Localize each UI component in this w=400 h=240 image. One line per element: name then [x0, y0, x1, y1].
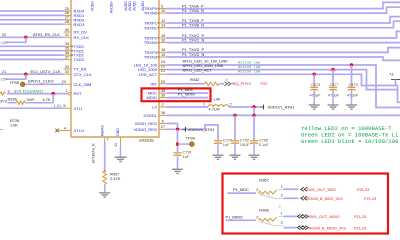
svg-text:XTLO: XTLO: [74, 128, 84, 133]
svg-text:2.37K: 2.37K: [110, 176, 121, 181]
wire RXD0: [0, 6, 85, 14]
svg-text:RXD3: RXD3: [74, 22, 85, 27]
svg-text:EP1BIAS_R: EP1BIAS_R: [92, 143, 96, 163]
svg-text:P1_TXVD_N: P1_TXVD_N: [182, 52, 204, 57]
svg-text:3: 3: [281, 220, 283, 225]
ground below R427: [99, 193, 110, 197]
svg-text:Green LED1 blink = 10/100/100: Green LED1 blink = 10/100/100: [301, 138, 399, 145]
svg-text:P1_TXVB_N: P1_TXVB_N: [182, 23, 204, 28]
wire branch to C6F: [1, 37, 26, 45]
wire C473 drop: [313, 74, 315, 86]
svg-text:39: 39: [161, 93, 165, 98]
svg-text:3: 3: [281, 193, 283, 198]
svg-text:27: 27: [161, 124, 165, 129]
junction on RST: [52, 92, 55, 95]
capacitor C791 1uF: [174, 150, 192, 169]
svg-text:XTLI: XTLI: [74, 106, 82, 111]
pin 8 VDDH_REG: [135, 119, 178, 130]
pin 13 TRXN1 / wire net P1_TXVB_N: [144, 21, 400, 30]
svg-text:41: 41: [114, 143, 118, 147]
wire net ATH1_RX_CLK: [0, 32, 89, 40]
red highlight box MDC/MDIO: [142, 88, 211, 101]
capacitor C750 0.1uF: [250, 138, 269, 155]
svg-text:TRXN2: TRXN2: [144, 40, 158, 45]
svg-text:1: 1: [66, 88, 68, 93]
svg-text:R368: R368: [259, 207, 268, 212]
svg-text:RX_CLK: RX_CLK: [74, 35, 90, 40]
wire stub left edge crystal: [0, 129, 3, 131]
svg-text:13: 13: [161, 23, 165, 28]
svg-text:R395: R395: [8, 96, 17, 101]
wire net RGMII_B_MDC_3V3: [281, 193, 377, 201]
junction rail to C752: [233, 114, 236, 117]
resistor R726 value note: [10, 118, 19, 127]
svg-text:C6F: C6F: [1, 41, 9, 45]
svg-text:3V3 TOLERANT: 3V3 TOLERANT: [14, 89, 44, 94]
svg-text:1: 1: [203, 101, 205, 106]
svg-text:SW1_OUT_MDC: SW1_OUT_MDC: [307, 187, 337, 192]
wire net SW1_OUT_MDIO: [278, 211, 366, 219]
svg-text:36: 36: [161, 110, 165, 115]
svg-text:RGMII_B_MDC_3V3: RGMII_B_MDC_3V3: [307, 196, 343, 201]
svg-text:5: 5: [63, 103, 65, 108]
pin 27 VDDIO_REG / wire net VDD1V8_ATH1: [133, 124, 218, 140]
svg-text:1.0K: 1.0K: [10, 122, 18, 127]
junction to TP90: [176, 142, 179, 145]
wire RBIAS down / net EPBIAS vertical label: [92, 142, 105, 170]
svg-text:470pF: 470pF: [310, 92, 322, 97]
resistor R368: [259, 207, 278, 225]
pin 12 TRXP1 / wire net P1_TXVB_P: [144, 17, 400, 26]
pin 22 LED_1000 / wire net ATH1_LED_1000_LINK: [138, 63, 397, 90]
svg-text:1uF: 1uF: [183, 154, 190, 159]
svg-text:AVDD: AVDD: [132, 1, 136, 11]
svg-text:37: 37: [65, 54, 69, 59]
pin 9 TRXP0 / wire net P1_TXVA_P: [144, 2, 400, 11]
wire net RST 3V3 TOLERANT: [7, 88, 82, 96]
svg-text:INT: INT: [151, 81, 158, 86]
svg-text:DNP: DNP: [27, 97, 36, 102]
wire branch lower left: [1, 74, 26, 82]
svg-text:RGMII_B_MDIO_3V3: RGMII_B_MDIO_3V3: [309, 225, 346, 230]
svg-text:30: 30: [65, 27, 70, 32]
svg-text:23: 23: [62, 79, 66, 84]
junction on GTX_CLK: [24, 73, 27, 76]
svg-text:P1_MDIO: P1_MDIO: [178, 92, 195, 97]
svg-text:3V3: 3V3: [0, 98, 7, 103]
wire RXD2: [0, 15, 85, 23]
svg-text:P1_MDC: P1_MDC: [233, 187, 249, 192]
red highlight box MDC/MDIO straps: [223, 174, 389, 234]
svg-text:GND: GND: [116, 128, 120, 136]
pin 4 XTLO with no-connect X: [55, 125, 84, 133]
svg-text:P22: P22: [261, 81, 268, 86]
svg-text:VDDH_REG: VDDH_REG: [135, 121, 157, 126]
svg-text:VDDIO_REG: VDDIO_REG: [133, 127, 157, 132]
junction at L40 output: [252, 105, 255, 108]
svg-text:7: 7: [107, 138, 109, 142]
svg-text:1.2V: 1.2V: [54, 103, 62, 108]
svg-text:2: 2: [256, 187, 258, 192]
capacitor C279 1uF: [214, 138, 232, 155]
svg-text:TP95: TP95: [10, 80, 20, 85]
note green LED text: [301, 125, 399, 145]
svg-text:RX_DV: RX_DV: [74, 30, 88, 35]
ground below C279: [213, 155, 224, 159]
svg-text:AVDDH: AVDDH: [110, 1, 114, 14]
svg-text:EC1_USTX_CLK: EC1_USTX_CLK: [31, 69, 61, 74]
IC U1 AR8035 Ethernet PHY body outline: [71, 0, 159, 143]
svg-text:9: 9: [8, 88, 10, 93]
svg-text:470pF: 470pF: [328, 92, 340, 97]
svg-text:P21,23: P21,23: [364, 196, 376, 201]
pin 30 RX_DV: [64, 27, 88, 35]
wire RXD3: [0, 19, 85, 27]
svg-text:ATH1_RX_CLK: ATH1_RX_CLK: [33, 32, 60, 37]
svg-text:LX: LX: [152, 105, 157, 110]
inductor L40 4.7UH: [203, 96, 232, 111]
test point TP95: [10, 80, 26, 87]
resistor R367: [259, 178, 278, 198]
wire junction drop to DVDDL rail: [253, 107, 255, 115]
wire L40 to VDD1V1_ATH1: [229, 106, 260, 108]
ground below C750: [249, 155, 260, 159]
junction LED2 to C477: [331, 68, 334, 71]
power +3V3 symbol top right: [389, 72, 400, 86]
capacitor C473 470pF: [310, 82, 322, 105]
svg-text:P1_MDIO: P1_MDIO: [226, 214, 243, 219]
svg-text:VDD1V1_ATH1: VDD1V1_ATH1: [268, 105, 295, 110]
svg-text:1: 1: [281, 184, 283, 189]
junction LED3 to C473: [313, 73, 316, 76]
svg-text:EPHY1_CLKO: EPHY1_CLKO: [28, 78, 54, 83]
svg-text:C6F: C6F: [1, 78, 9, 82]
wire C750 drop: [253, 115, 255, 140]
power tick VDD1V8_ATH1: [183, 127, 215, 132]
pin 15 TRXP2 / wire net P1_TXVC_P: [144, 31, 400, 40]
svg-text:0: 0: [226, 78, 228, 82]
wire net EPHY1_CLKO: [25, 78, 91, 87]
svg-text:21: 21: [161, 68, 165, 73]
ground below C473: [309, 105, 320, 109]
wire net SW1_OUT_MDC: [278, 184, 369, 192]
capacitor C477 470pF: [328, 82, 340, 105]
power tick VDD1V1_ATH1: [260, 105, 294, 110]
resistor R427 2.37K: [103, 170, 121, 193]
svg-text:VDDH: VDDH: [91, 1, 95, 12]
svg-text:TRXN0: TRXN0: [144, 11, 158, 16]
ground below C477: [328, 105, 339, 109]
pin 18 TRXP3 / wire net P1_TXVD_P: [144, 47, 400, 55]
svg-text:C473: C473: [311, 82, 320, 87]
svg-text:0.1uF: 0.1uF: [259, 142, 270, 147]
svg-text:P21,23: P21,23: [354, 214, 366, 219]
pin 36 DVDDL / wire rail: [143, 110, 400, 118]
svg-text:21: 21: [2, 69, 6, 74]
svg-text:TRXN1: TRXN1: [144, 25, 158, 30]
pin 39 MDIO / wire net P1_MDIO: [147, 92, 208, 101]
wire C477 drop: [332, 70, 334, 87]
svg-text:16: 16: [161, 37, 165, 42]
svg-text:LED_ACT: LED_ACT: [139, 72, 158, 77]
pin 16 TRXN2 / wire net P1_TXVC_N: [144, 37, 400, 45]
wire RST to R395: [52, 94, 54, 103]
capacitor C475 470pF: [347, 82, 359, 105]
svg-text:1: 1: [281, 211, 283, 216]
svg-text:R442: R442: [190, 77, 199, 82]
wire TXD3: [0, 54, 85, 62]
svg-text:31: 31: [65, 32, 69, 37]
resistor R367 DNP section: [259, 193, 284, 198]
svg-text:RST: RST: [74, 91, 83, 96]
pin 32 TX_EN: [64, 64, 87, 72]
svg-text:19: 19: [161, 52, 165, 57]
junction rail to C750: [252, 114, 255, 117]
ground below C475: [346, 105, 357, 109]
svg-text:1uF: 1uF: [223, 142, 230, 147]
pin 24 LED_10_100 / wire net ATH1_LED_10_100_LINK: [134, 58, 400, 107]
svg-text:AR8035: AR8035: [139, 138, 155, 143]
pin 21 LED_ACT / wire net ATH1_LED_ACT: [139, 68, 400, 103]
svg-text:DVDDL: DVDDL: [143, 113, 157, 118]
pin 20 INT / resistor R442 / off-page IRQ_PHY0: [151, 77, 205, 87]
ground below GND pin: [115, 157, 127, 161]
svg-text:470pF: 470pF: [347, 92, 359, 97]
junction LED1 to C475: [350, 63, 353, 66]
wire net EC1_USTX_CLK: [0, 69, 92, 77]
resistor R442: [205, 82, 220, 86]
svg-text:L40: L40: [214, 96, 221, 101]
resistor R395 DNP 4.7K: [0, 96, 53, 104]
svg-text:CLK_25M: CLK_25M: [74, 82, 92, 87]
wire C752 drop: [234, 115, 236, 140]
svg-text:P21,23: P21,23: [354, 225, 366, 230]
svg-text:22: 22: [2, 32, 6, 37]
svg-text:33: 33: [65, 69, 69, 74]
svg-text:VDD1V8_ATH1: VDD1V8_ATH1: [188, 127, 215, 132]
wire to off-page connector IRQ_PHY0: [220, 81, 268, 86]
svg-text:P1_TXVC_N: P1_TXVC_N: [182, 37, 204, 42]
svg-text:ATH1_LED_ACT: ATH1_LED_ACT: [183, 68, 213, 73]
ground below C791: [172, 169, 183, 173]
wire TXD0: [0, 41, 85, 49]
svg-text:IRQ_PHY0: IRQ_PHY0: [232, 81, 252, 86]
svg-text:2: 2: [162, 102, 164, 107]
svg-text:+3: +3: [389, 72, 393, 77]
junction VDDIO node: [176, 128, 179, 131]
svg-text:P1_TXVA_N: P1_TXVA_N: [182, 8, 204, 13]
wire C475 drop: [351, 65, 353, 87]
svg-text:4.7K: 4.7K: [43, 97, 51, 102]
pin 41 GND bottom edge: [114, 128, 121, 158]
wire net P1_MDIO: [226, 214, 259, 220]
ground below C752: [230, 155, 241, 159]
svg-text:RBIAS: RBIAS: [100, 125, 104, 136]
wire RXD1: [0, 10, 85, 18]
svg-text:TP90: TP90: [186, 136, 196, 141]
node AVDD top pin names: [91, 1, 145, 14]
junction on RX_CLK: [24, 36, 27, 39]
wire net RGMII_B_MDIO_3V3: [281, 220, 367, 230]
pin 40 MDC / wire net P1_MDC: [148, 87, 208, 96]
svg-text:C475: C475: [349, 82, 358, 87]
svg-text:8: 8: [162, 119, 164, 124]
wire TXD1: [0, 46, 85, 54]
resistor left edge stub on RST row: [0, 92, 6, 95]
pin 19 TRXN3 / wire net P1_TXVD_N: [144, 52, 400, 61]
pin 10 TRXN0 / wire net P1_TXVA_N: [144, 7, 400, 16]
test point TP90: [178, 136, 196, 147]
svg-text:4.7UH: 4.7UH: [209, 107, 220, 112]
svg-text:20: 20: [161, 79, 166, 84]
svg-text:P21,23: P21,23: [357, 187, 369, 192]
svg-text:4: 4: [64, 125, 67, 130]
svg-text:0: 0: [279, 204, 281, 208]
resistor R368 DNP section: [259, 221, 284, 226]
svg-text:R367: R367: [259, 178, 268, 183]
svg-text:28: 28: [65, 19, 69, 24]
svg-text:GTX_CLK: GTX_CLK: [74, 72, 93, 77]
pin 7 RBIAS bottom edge: [100, 125, 108, 142]
wire down to C791: [177, 129, 179, 152]
svg-text:TXD3: TXD3: [74, 57, 85, 62]
capacitor C752 10UF: [231, 138, 250, 155]
svg-text:SW1_OUT_MDIO: SW1_OUT_MDIO: [309, 214, 340, 219]
svg-text:2: 2: [256, 214, 258, 219]
svg-text:C477: C477: [330, 82, 339, 87]
svg-text:2: 2: [230, 101, 232, 106]
svg-text:10UF: 10UF: [240, 142, 250, 147]
svg-text:MDIO: MDIO: [147, 95, 157, 100]
wire net XTLI: [0, 103, 82, 111]
wire TXD2: [0, 50, 85, 58]
wire net P1_MDC: [228, 187, 259, 193]
pin 2 LX / wire to L40: [152, 102, 208, 110]
svg-text:TRXN3: TRXN3: [144, 55, 158, 60]
